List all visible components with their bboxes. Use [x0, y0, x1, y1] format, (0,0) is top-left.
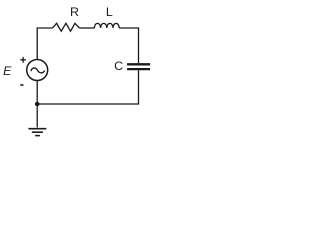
resistor R1: [53, 23, 80, 31]
svg-text:C: C: [114, 59, 123, 73]
sine wave inside source: [31, 68, 45, 73]
AC source E1 circle: [27, 60, 48, 81]
svg-text:L: L: [106, 5, 113, 19]
wire top-left from source to resistor: [37, 28, 52, 60]
svg-text:R: R: [70, 5, 79, 19]
wire top-right down to capacitor: [119, 28, 138, 63]
plus sign: [20, 57, 26, 63]
minus sign: [20, 84, 23, 86]
node junction dot: [35, 102, 40, 107]
svg-text:E: E: [3, 64, 12, 78]
capacitor C1 plates: [127, 64, 150, 69]
inductor L1: [94, 23, 119, 28]
ground: [28, 129, 46, 136]
wire source bottom to ground: [36, 80, 38, 127]
wire between resistor and inductor: [79, 27, 94, 29]
wire capacitor to bottom rail: [37, 70, 138, 104]
